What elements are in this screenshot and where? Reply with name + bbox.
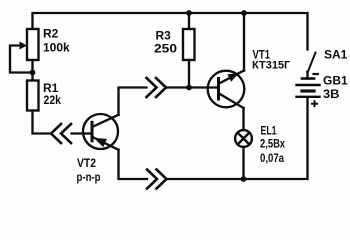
svg-text:GB1: GB1: [323, 74, 348, 88]
wire chevron to VT1 base: [167, 86, 219, 88]
svg-text:2,5Вх: 2,5Вх: [260, 137, 285, 151]
svg-text:КТ315Г: КТ315Г: [252, 60, 291, 72]
wire VT2 emitter down to bottom rail: [119, 150, 148, 179]
wire R2 bottom lead: [31, 60, 33, 73]
svg-text:VT2: VT2: [77, 156, 96, 170]
wire VT2 collector up to middle wire: [119, 88, 147, 115]
svg-text:100k: 100k: [43, 41, 70, 55]
svg-text:0,07а: 0,07а: [260, 151, 284, 165]
transistor VT2 p-n-p: [83, 114, 118, 149]
wire switch to battery: [306, 72, 308, 79]
resistor R2: [27, 29, 39, 60]
svg-text:22k: 22k: [44, 93, 62, 107]
node junction R3 top rail: [186, 10, 192, 16]
chevron arrows right-pointing middle: [147, 78, 167, 97]
node junction lamp bottom rail: [241, 176, 247, 182]
node junction R3 bottom / VT1 base: [186, 85, 192, 91]
switch SA1 lever: [308, 53, 316, 72]
battery minus sign: [314, 73, 318, 75]
lamp EL1: [235, 130, 252, 147]
svg-text:SA1: SA1: [324, 48, 348, 62]
svg-text:250: 250: [154, 42, 177, 56]
svg-text:3В: 3В: [323, 87, 340, 101]
wire lamp to bottom rail: [242, 147, 244, 179]
svg-text:R3: R3: [156, 29, 172, 43]
wire chevron to VT2 base: [72, 132, 93, 134]
wire R1 bottom to VT2 base: [33, 111, 51, 134]
svg-text:p-n-p: p-n-p: [77, 170, 101, 184]
node junction R2/R1/wiper: [30, 70, 36, 76]
battery plus sign: [312, 101, 317, 106]
wire top rail: [33, 13, 308, 50]
transistor VT1 n-p-n KT315G: [208, 71, 245, 108]
potentiometer wiper arrow: [10, 46, 33, 73]
chevron arrows left-pointing: [51, 124, 71, 143]
wire bottom rail right: [167, 97, 308, 179]
battery GB1 plates: [302, 77, 314, 80]
wire VT1 collector down to lamp: [242, 108, 244, 130]
svg-text:R2: R2: [43, 27, 59, 41]
resistor R3: [188, 13, 190, 29]
chevron arrows right-pointing bottom: [147, 170, 167, 189]
resistor R1: [31, 73, 33, 81]
wire VT1 emitter up to top rail: [243, 13, 245, 71]
node junction VT1 emitter top rail: [241, 10, 247, 16]
